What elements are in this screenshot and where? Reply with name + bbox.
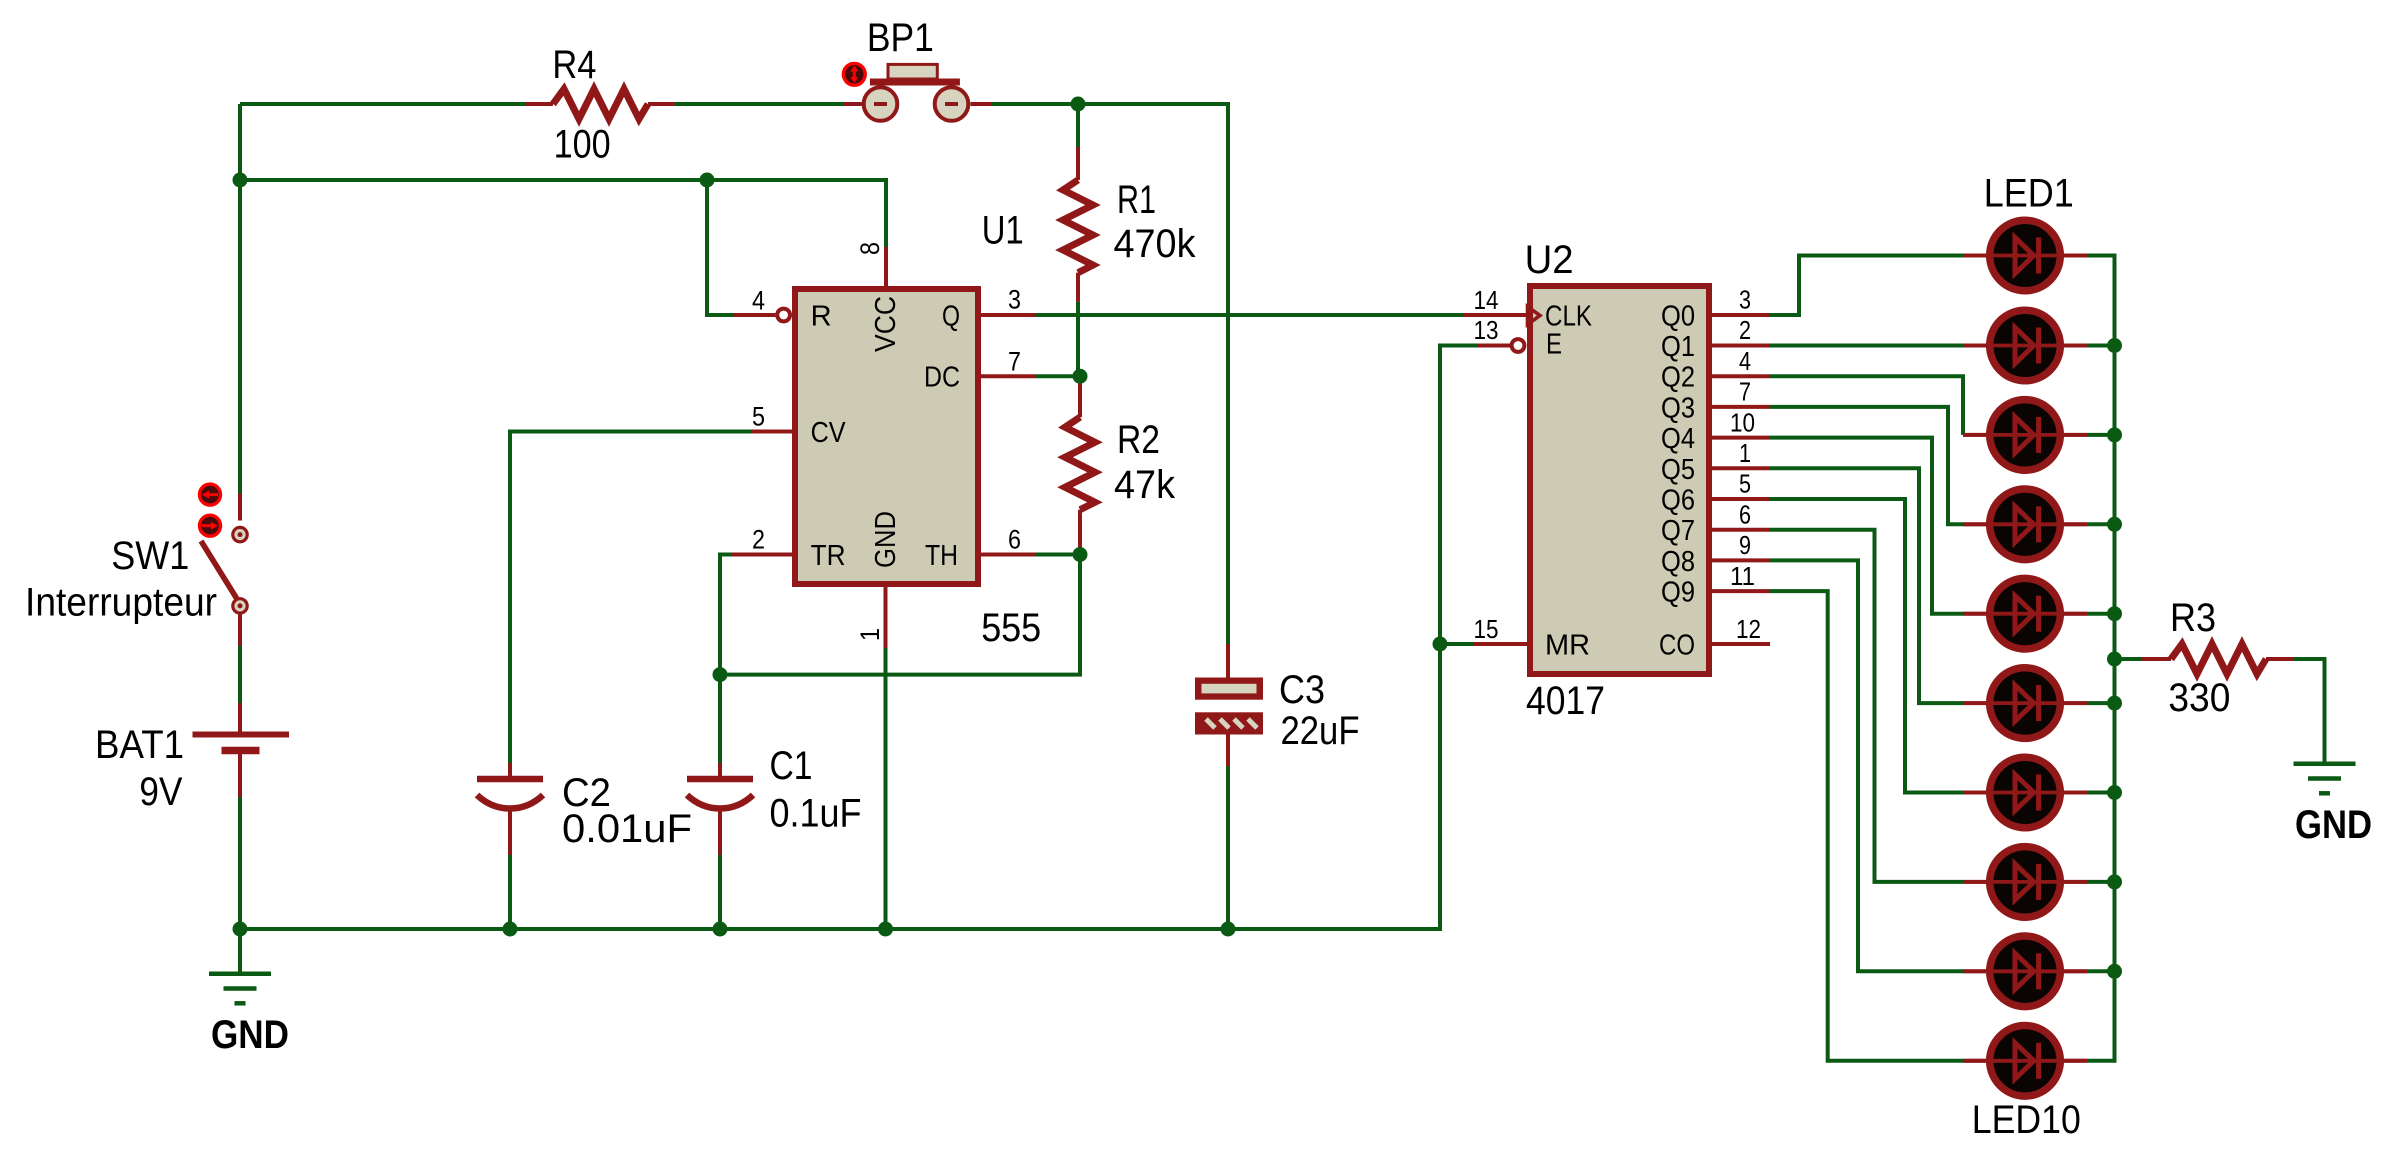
4017 CLK pin14 stub bbox=[1464, 313, 1527, 317]
LED5 (diode symbol) bbox=[1963, 578, 2087, 649]
555 pin2 stub bbox=[731, 553, 792, 557]
ground symbol right bbox=[2294, 764, 2356, 794]
junction LED bus at LED5 row bbox=[2107, 606, 2122, 621]
svg-text:Q3: Q3 bbox=[1661, 392, 1695, 424]
wire LED2 cathode to bus bbox=[2087, 344, 2115, 348]
wire C2 bottom to ground rail bbox=[508, 855, 512, 929]
LED5 cathode lead bbox=[2064, 612, 2087, 616]
wire 555 GND pin1 to ground rail bbox=[884, 648, 888, 929]
wire 555 CV pin5 to C2 bbox=[510, 432, 752, 764]
svg-text:22uF: 22uF bbox=[1281, 709, 1360, 753]
svg-text:9V: 9V bbox=[139, 770, 182, 814]
push button BP1 right contact bbox=[935, 87, 969, 121]
svg-text:C1: C1 bbox=[770, 744, 813, 788]
junction LED bus at LED7 row bbox=[2107, 785, 2122, 800]
svg-text:TR: TR bbox=[811, 540, 846, 572]
svg-text:GND: GND bbox=[2295, 803, 2372, 847]
wire LED4 cathode to bus bbox=[2087, 522, 2115, 526]
wire LED9 cathode to bus bbox=[2087, 969, 2115, 973]
junction LED bus at LED4 row bbox=[2107, 517, 2122, 532]
svg-text:11: 11 bbox=[1730, 561, 1755, 591]
wire LED cathode bus bbox=[2087, 256, 2115, 1061]
wire C1 bottom to ground rail bbox=[718, 855, 722, 929]
LED7 anode lead bbox=[1963, 791, 1986, 795]
wire switch to battery bbox=[238, 646, 242, 703]
junction ground rail at battery bbox=[233, 922, 248, 937]
4017 E pin13 stub bbox=[1478, 344, 1511, 348]
LED1 (diode symbol) bbox=[1963, 220, 2087, 291]
wire Q1 to LED2 bbox=[1770, 344, 1963, 348]
LED7 (diode symbol) bbox=[1963, 757, 2087, 828]
resistor R2 bbox=[1065, 417, 1095, 510]
svg-text:SW1: SW1 bbox=[111, 534, 189, 578]
battery top lead bbox=[238, 703, 242, 732]
junction R3 node bbox=[2107, 652, 2122, 667]
LED10 anode lead bbox=[1963, 1059, 1986, 1063]
svg-text:Q: Q bbox=[942, 301, 960, 333]
svg-text:9: 9 bbox=[1739, 530, 1751, 560]
push button BP1 left contact bbox=[864, 87, 898, 121]
C1 top lead bbox=[718, 763, 722, 776]
4017 Q3 stub bbox=[1712, 405, 1770, 409]
battery bottom lead bbox=[238, 751, 242, 797]
wire +9V top rail from battery branch to R4 bbox=[240, 102, 526, 106]
svg-text:GND: GND bbox=[211, 1013, 289, 1057]
LED8 anode lead bbox=[1963, 880, 1986, 884]
4017 Q6 stub bbox=[1712, 497, 1770, 501]
4017 Q7 stub bbox=[1712, 528, 1770, 532]
battery BAT1 bbox=[193, 735, 290, 751]
push button BP1 contact center marks bbox=[874, 102, 958, 106]
LED9 cathode lead bbox=[2064, 969, 2087, 973]
junction MR riser bbox=[1433, 637, 1448, 652]
resistor R3 bbox=[2171, 644, 2266, 674]
LED3 cathode lead bbox=[2064, 433, 2087, 437]
wire LED7 cathode to bus bbox=[2087, 791, 2115, 795]
svg-text:6: 6 bbox=[1739, 499, 1751, 529]
wire bus node to R3 bbox=[2115, 657, 2142, 661]
junction LED bus at LED3 row bbox=[2107, 427, 2122, 442]
C3 bottom lead bbox=[1226, 735, 1230, 767]
junction ground rail at C3 bbox=[1221, 922, 1236, 937]
svg-text:Interrupteur: Interrupteur bbox=[25, 581, 217, 625]
BP1 left lead bbox=[843, 102, 862, 106]
svg-text:Q1: Q1 bbox=[1661, 331, 1695, 363]
R2 top lead bbox=[1078, 376, 1082, 417]
svg-text:U2: U2 bbox=[1525, 238, 1574, 282]
capacitor C1 bbox=[687, 779, 753, 809]
LED4 (diode symbol) bbox=[1963, 489, 2087, 560]
wire LED6 cathode to bus bbox=[2087, 701, 2115, 705]
svg-text:LED10: LED10 bbox=[1972, 1098, 2081, 1142]
svg-text:1: 1 bbox=[855, 628, 885, 641]
wire R4 to BP1 contact bbox=[675, 102, 843, 106]
LED9 anode lead bbox=[1963, 969, 1986, 973]
junction ground rail at C2 bbox=[503, 922, 518, 937]
wire 555 DC pin7 to node C bbox=[1036, 374, 1080, 378]
LED8 cathode lead bbox=[2064, 880, 2087, 884]
svg-text:Q9: Q9 bbox=[1661, 577, 1695, 609]
LED2 anode lead bbox=[1963, 344, 1986, 348]
U1 reset bubble pin4 bbox=[777, 309, 790, 322]
junction LED bus at LED9 row bbox=[2107, 964, 2122, 979]
svg-text:Q4: Q4 bbox=[1661, 423, 1695, 455]
svg-text:4: 4 bbox=[1739, 346, 1751, 376]
wire Q8 to LED9 bbox=[1770, 560, 1963, 971]
switch bottom lead bbox=[238, 613, 242, 646]
wire ground node to GND symbol bbox=[238, 929, 242, 974]
R4 left lead bbox=[526, 102, 553, 106]
wire LED8 cathode to bus bbox=[2087, 880, 2115, 884]
LED10 (diode symbol) bbox=[1963, 1026, 2087, 1097]
wire R1 bottom to DC node bbox=[1076, 302, 1080, 377]
U2 enable bubble pin13 bbox=[1512, 339, 1525, 352]
switch SW1 bottom contact bbox=[233, 599, 247, 613]
C2 bottom lead bbox=[508, 810, 512, 855]
wire C3 bottom to ground rail bbox=[1226, 766, 1230, 929]
LED3 anode lead bbox=[1963, 433, 1986, 437]
R2 bottom lead bbox=[1078, 510, 1082, 555]
svg-text:R1: R1 bbox=[1117, 178, 1156, 222]
svg-text:Q2: Q2 bbox=[1661, 362, 1695, 394]
wire VCC branch y180 to 555 pin8 bbox=[240, 180, 886, 247]
svg-text:GND: GND bbox=[870, 511, 902, 568]
junction node A (BP1 / R1 / C3) bbox=[1071, 97, 1086, 112]
junction LED bus at LED6 row bbox=[2107, 696, 2122, 711]
4017 Q1 stub bbox=[1712, 344, 1770, 348]
555 pin4 stub bbox=[734, 313, 775, 317]
svg-text:DC: DC bbox=[924, 362, 960, 394]
R3 left lead bbox=[2141, 657, 2171, 661]
wire MR branch bbox=[1440, 642, 1473, 646]
wire node E down to C1 bbox=[718, 675, 722, 763]
svg-text:555: 555 bbox=[981, 606, 1041, 650]
svg-text:C3: C3 bbox=[1279, 668, 1325, 712]
wire Q9 to LED10 bbox=[1770, 591, 1963, 1061]
svg-text:5: 5 bbox=[752, 402, 765, 432]
push button BP1 actuator marker bbox=[843, 63, 865, 85]
svg-text:0.01uF: 0.01uF bbox=[562, 807, 692, 851]
svg-text:4017: 4017 bbox=[1526, 679, 1605, 723]
4017 Q9 stub bbox=[1712, 589, 1770, 593]
wire 555 Q output to 4017 CLK bbox=[1036, 313, 1464, 317]
LED4 anode lead bbox=[1963, 522, 1986, 526]
svg-text:R3: R3 bbox=[2170, 596, 2216, 640]
counter U2 4017 body bbox=[1530, 286, 1709, 674]
svg-text:100: 100 bbox=[554, 123, 611, 167]
svg-text:5: 5 bbox=[1739, 469, 1751, 499]
svg-text:E: E bbox=[1546, 329, 1562, 361]
LED2 cathode lead bbox=[2064, 344, 2087, 348]
LED6 anode lead bbox=[1963, 701, 1986, 705]
LED5 anode lead bbox=[1963, 612, 1986, 616]
wire battery to ground node bbox=[238, 797, 242, 929]
C2 top lead bbox=[508, 763, 512, 776]
4017 Q0 stub bbox=[1712, 313, 1770, 317]
wire Q3 to LED4 bbox=[1770, 407, 1963, 524]
svg-text:330: 330 bbox=[2168, 676, 2230, 720]
wire battery branch vertical bbox=[238, 104, 242, 494]
4017 Q4 stub bbox=[1712, 436, 1770, 440]
svg-text:7: 7 bbox=[1739, 377, 1751, 407]
wire node A to R1 top bbox=[1076, 104, 1080, 147]
junction node C (DC / R1 / R2) bbox=[1073, 369, 1088, 384]
svg-text:Q5: Q5 bbox=[1661, 454, 1695, 486]
LED4 cathode lead bbox=[2064, 522, 2087, 526]
svg-text:BAT1: BAT1 bbox=[95, 723, 184, 767]
wire Q7 to LED8 bbox=[1770, 530, 1963, 882]
svg-text:14: 14 bbox=[1474, 285, 1499, 315]
wire LED5 cathode to bus bbox=[2087, 612, 2115, 616]
resistor R4 bbox=[553, 89, 648, 119]
wire BP1 to node A and down to C3 bbox=[991, 104, 1228, 644]
svg-text:Q6: Q6 bbox=[1661, 485, 1695, 517]
wire Q0 to LED1 bbox=[1770, 256, 1963, 316]
svg-text:8: 8 bbox=[855, 242, 885, 255]
svg-text:U1: U1 bbox=[982, 209, 1024, 253]
4017 Q2 stub bbox=[1712, 374, 1770, 378]
junction ground rail at 555 pin1 bbox=[878, 922, 893, 937]
R4 right lead bbox=[648, 102, 675, 106]
wire node D down and left under 555 bbox=[720, 555, 1080, 675]
svg-text:R4: R4 bbox=[552, 43, 596, 87]
LED7 cathode lead bbox=[2064, 791, 2087, 795]
R1 bottom lead bbox=[1076, 273, 1080, 302]
R3 right lead bbox=[2266, 657, 2294, 661]
push button BP1 cap bbox=[888, 64, 937, 79]
LED2 (diode symbol) bbox=[1963, 310, 2087, 381]
wire R3 to right GND bbox=[2294, 659, 2325, 764]
svg-text:Q8: Q8 bbox=[1661, 546, 1695, 578]
LED6 (diode symbol) bbox=[1963, 668, 2087, 739]
svg-text:VCC: VCC bbox=[870, 296, 902, 352]
555 pin1 stub bbox=[884, 587, 888, 648]
switch SW1 contact center marks bbox=[238, 532, 243, 608]
555 pin6 stub bbox=[981, 553, 1036, 557]
svg-text:R: R bbox=[811, 301, 832, 333]
junction LED bus at LED8 row bbox=[2107, 874, 2122, 889]
svg-text:LED1: LED1 bbox=[1984, 172, 2074, 216]
555 pin7 stub bbox=[981, 374, 1036, 378]
LED10 cathode lead bbox=[2064, 1059, 2087, 1063]
op-amp/timer U1 555 body bbox=[795, 289, 978, 584]
wire Q4 to LED5 bbox=[1770, 438, 1963, 614]
junction battery branch / VCC branch bbox=[233, 173, 248, 188]
555 pin8 stub bbox=[884, 247, 888, 286]
svg-text:TH: TH bbox=[925, 540, 958, 572]
BP1 right lead bbox=[971, 102, 992, 106]
wire 555 TH pin6 to node D bbox=[1036, 553, 1080, 557]
C3 top lead bbox=[1226, 644, 1230, 678]
junction LED bus at LED2 row bbox=[2107, 338, 2122, 353]
LED1 anode lead bbox=[1963, 254, 1986, 258]
switch top lead bbox=[238, 494, 242, 521]
svg-text:3: 3 bbox=[1008, 285, 1021, 315]
4017 Q8 stub bbox=[1712, 558, 1770, 562]
LED9 (diode symbol) bbox=[1963, 936, 2087, 1007]
wire Q5 to LED6 bbox=[1770, 468, 1963, 703]
svg-text:R2: R2 bbox=[1117, 418, 1160, 462]
LED6 cathode lead bbox=[2064, 701, 2087, 705]
capacitor C2 bbox=[477, 779, 543, 809]
svg-text:4: 4 bbox=[752, 286, 765, 316]
svg-text:10: 10 bbox=[1730, 407, 1755, 437]
LED1 cathode lead bbox=[2064, 254, 2087, 258]
svg-text:470k: 470k bbox=[1114, 222, 1197, 266]
svg-text:Q7: Q7 bbox=[1661, 515, 1695, 547]
555 pin3 stub bbox=[981, 313, 1036, 317]
junction node D (TH / R2) bbox=[1073, 547, 1088, 562]
4017 Q5 stub bbox=[1712, 466, 1770, 470]
U2 clock triangle marker bbox=[1528, 307, 1541, 325]
svg-text:2: 2 bbox=[752, 525, 765, 555]
svg-text:13: 13 bbox=[1474, 315, 1499, 345]
svg-text:3: 3 bbox=[1739, 285, 1751, 315]
svg-text:CV: CV bbox=[811, 417, 847, 449]
svg-text:7: 7 bbox=[1008, 346, 1021, 376]
switch SW1 top contact bbox=[233, 527, 247, 541]
svg-text:47k: 47k bbox=[1114, 463, 1176, 507]
svg-text:12: 12 bbox=[1736, 614, 1761, 644]
wire 555 TR pin2 to node E bbox=[720, 555, 731, 675]
4017 MR pin15 stub bbox=[1473, 642, 1527, 646]
junction ground rail at C1 bbox=[713, 922, 728, 937]
wire LED3 cathode to bus bbox=[2087, 433, 2115, 437]
push button BP1 actuator bar bbox=[870, 79, 960, 86]
svg-text:Q0: Q0 bbox=[1661, 301, 1695, 333]
switch SW1 actuator marker down bbox=[200, 515, 221, 536]
LED3 (diode symbol) bbox=[1963, 400, 2087, 471]
capacitor C3 (electrolytic) positive plate bbox=[1195, 678, 1263, 700]
svg-text:CO: CO bbox=[1659, 630, 1695, 662]
svg-text:2: 2 bbox=[1739, 315, 1751, 345]
555 pin5 stub bbox=[752, 430, 792, 434]
R1 top lead bbox=[1076, 147, 1080, 180]
junction node E (TR / C1) bbox=[713, 667, 728, 682]
C1 bottom lead bbox=[718, 810, 722, 855]
wire ground rail and riser to 4017 E pin13 bbox=[240, 346, 1478, 930]
capacitor C3 (electrolytic) negative plate bbox=[1195, 712, 1263, 734]
svg-text:6: 6 bbox=[1008, 525, 1021, 555]
LED8 (diode symbol) bbox=[1963, 847, 2087, 918]
resistor R1 bbox=[1063, 180, 1093, 273]
junction node B (reset branch) bbox=[700, 173, 715, 188]
ground symbol left bbox=[209, 974, 271, 1004]
wire Q2 to LED3 bbox=[1770, 376, 1963, 435]
switch SW1 blade bbox=[201, 541, 237, 599]
wire Q6 to LED7 bbox=[1770, 499, 1963, 793]
svg-text:1: 1 bbox=[1739, 438, 1751, 468]
svg-text:BP1: BP1 bbox=[867, 16, 934, 60]
4017 CO pin12 stub bbox=[1712, 642, 1770, 646]
switch SW1 actuator marker up bbox=[200, 484, 221, 505]
wire node B down to 555 reset pin4 bbox=[707, 180, 734, 315]
svg-text:15: 15 bbox=[1474, 614, 1499, 644]
svg-text:0.1uF: 0.1uF bbox=[770, 792, 862, 836]
svg-text:MR: MR bbox=[1545, 630, 1590, 662]
